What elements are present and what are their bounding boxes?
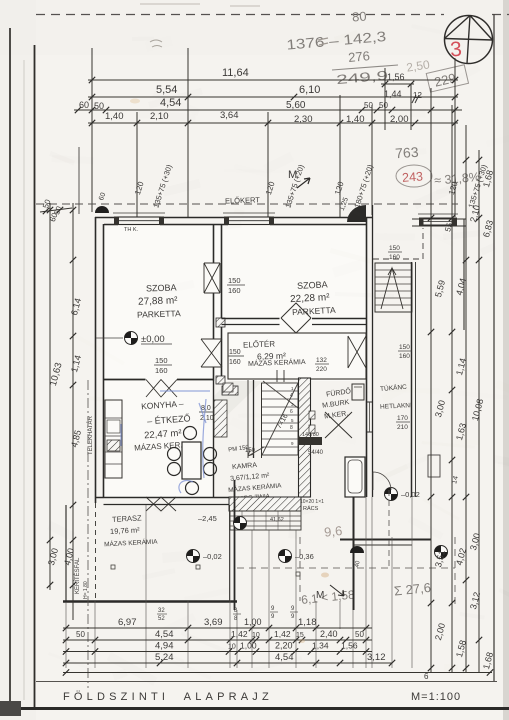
kitchen right wall: [213, 381, 215, 497]
kitchen east wall hatch: [214, 400, 227, 437]
svg-text:M: M: [288, 169, 297, 181]
svg-text:150: 150: [155, 356, 168, 365]
svg-text:50: 50: [355, 630, 364, 639]
wall right of chimney hatblocks: [309, 411, 315, 419]
svg-text:3: 3: [449, 38, 462, 62]
interior stair steps: [262, 381, 299, 458]
svg-text:160: 160: [155, 366, 168, 375]
spine wall hatch blocks: [216, 318, 225, 327]
right chain line x452: [451, 105, 453, 672]
svg-text:60: 60: [79, 100, 89, 110]
svg-text:22,28 m²: 22,28 m²: [290, 292, 331, 305]
svg-text:TERASZ: TERASZ: [112, 513, 142, 524]
extension line x137: [136, 112, 138, 217]
door X hall (lower): [201, 339, 222, 367]
neighbour right wall: [463, 219, 465, 330]
svg-text:11,64: 11,64: [222, 67, 249, 79]
right frame line: [493, 14, 495, 682]
svg-text:243: 243: [402, 169, 424, 184]
svg-text:5,60: 5,60: [286, 100, 306, 111]
svg-text:160: 160: [228, 286, 241, 295]
right chain line x431: [430, 88, 432, 672]
svg-text:6: 6: [424, 672, 429, 681]
dim row3: [63, 651, 372, 653]
entry door swing filled: [347, 205, 366, 222]
level mark 0,00: [125, 332, 138, 345]
svg-text:–2,45: –2,45: [198, 514, 217, 523]
left chain line x73: [72, 203, 74, 620]
bathtub niche: [345, 457, 365, 497]
tiny stacked 9/9: [270, 606, 278, 620]
svg-text:54/40: 54/40: [308, 450, 324, 456]
fraction 150/160 hall: [228, 349, 244, 366]
hall door X right: [348, 336, 366, 368]
svg-text:160: 160: [229, 359, 241, 366]
faint diagonal smudge: [140, 360, 272, 482]
stair arrow top right: [381, 268, 403, 309]
svg-text:10×20 1×1: 10×20 1×1: [300, 499, 324, 505]
dim row2: [63, 639, 372, 641]
svg-text:150: 150: [228, 276, 241, 285]
svg-text:10: 10: [228, 644, 236, 651]
kamra hatch band: [229, 497, 301, 511]
extension line x340: [339, 95, 341, 217]
extension line x92: [91, 48, 93, 212]
door X rooms (upper): [204, 263, 220, 293]
svg-text:6,97: 6,97: [118, 617, 137, 628]
bottom right dashed yard: [237, 567, 455, 569]
left chain line x50: [49, 203, 51, 590]
top exterior wall inner line: [104, 224, 366, 226]
svg-text:1,00: 1,00: [244, 617, 262, 627]
left exterior wall: [95, 217, 97, 503]
svg-text:170: 170: [397, 415, 408, 422]
extension line x411: [410, 84, 412, 130]
hall lower double lines: [277, 370, 284, 382]
svg-text:50: 50: [76, 630, 85, 639]
fraction 132/220 hall: [315, 357, 329, 373]
dim line 11,64: [88, 79, 458, 81]
dark hearth block: [298, 437, 322, 445]
svg-text:2,30: 2,30: [294, 114, 313, 125]
extension line x268: [267, 112, 269, 217]
window W3: [418, 214, 458, 226]
tiny stacked 32/52: [157, 608, 167, 622]
svg-text:ELŐTÉR: ELŐTÉR: [243, 339, 276, 349]
garden left wall stub: [78, 147, 80, 214]
corner half disc: [350, 546, 364, 553]
svg-text:1,34: 1,34: [312, 641, 329, 651]
svg-text:1,40: 1,40: [346, 114, 365, 125]
dim line 1,56: [381, 83, 414, 85]
extension line x385: [384, 68, 386, 130]
fraction 150/160 porch: [398, 344, 412, 360]
terrace door X: [146, 497, 176, 511]
small dim 150 with arrow stairs foot: [248, 447, 264, 456]
terrace outline: [65, 505, 67, 602]
wall pier hatch: [222, 386, 238, 395]
svg-text:–0,02: –0,02: [203, 552, 222, 561]
svg-text:15: 15: [296, 632, 304, 639]
svg-text:150: 150: [389, 245, 400, 252]
dim row4: [63, 662, 392, 664]
svg-text:FÖLDSZINTI ALAPRAJZ: FÖLDSZINTI ALAPRAJZ: [63, 691, 273, 703]
fraction 170/210 porch: [396, 415, 410, 431]
svg-text:80: 80: [352, 9, 367, 25]
svg-text:4: 4: [290, 393, 293, 399]
chairs: [184, 427, 197, 440]
svg-text:–0,02: –0,02: [401, 490, 420, 499]
wall below left room (kitchen top): [104, 379, 215, 381]
svg-text:52: 52: [158, 616, 165, 622]
bottom-left corner blob: [0, 701, 21, 716]
level mark terrace -0,36: [279, 550, 292, 563]
svg-text:6: 6: [290, 409, 293, 415]
dim row1: [63, 627, 372, 629]
stair steps top right: [375, 270, 412, 305]
svg-text:3,12: 3,12: [367, 652, 386, 663]
svg-text:160: 160: [399, 353, 410, 360]
svg-text:SZOBA: SZOBA: [297, 279, 328, 291]
svg-text:–0,36: –0,36: [295, 552, 314, 561]
svg-text:19,76 m²: 19,76 m²: [110, 525, 141, 536]
porch door arc bottom: [373, 472, 391, 490]
extension line x188: [187, 48, 189, 217]
svg-text:220: 220: [316, 366, 327, 373]
middle spine wall: [213, 224, 215, 381]
extension line x372: [371, 105, 373, 215]
bottom right heavy corner: [353, 483, 355, 610]
pencil smudges top: [150, 40, 162, 47]
washbasin corridor: [428, 455, 440, 477]
blue pen marks: [121, 391, 210, 493]
dim line 5,54 / 6,10: [88, 96, 458, 98]
dim line 60/50/4,54/5,60: [74, 109, 462, 111]
tiny stacked 8/8: [233, 608, 241, 622]
svg-text:1,44: 1,44: [384, 89, 402, 99]
svg-text:3,64: 3,64: [220, 110, 239, 121]
svg-text:1,40: 1,40: [105, 111, 124, 122]
house bottom wall over terrace: [96, 497, 230, 499]
svg-text:2,40: 2,40: [320, 629, 338, 639]
svg-text:50: 50: [94, 101, 104, 111]
bathroom X: [325, 412, 352, 438]
level mark terrace -0,02: [187, 550, 200, 563]
svg-text:PARKETTA: PARKETTA: [137, 308, 181, 320]
svg-text:150: 150: [229, 349, 241, 356]
svg-text:160: 160: [389, 254, 400, 261]
fraction 150/160 landing: [388, 245, 402, 261]
svg-text:±0,00: ±0,00: [141, 334, 165, 345]
pencil boxed 229: [426, 65, 468, 92]
level mark porch -0,02: [385, 488, 398, 501]
level mark yard right: [435, 546, 448, 559]
window W2: [223, 213, 275, 225]
front garden dashed line: [36, 203, 458, 205]
svg-text:M: M: [316, 590, 324, 601]
svg-text:27,88 m²: 27,88 m²: [138, 295, 178, 307]
svg-text:2,20: 2,20: [275, 641, 293, 651]
room interior lightening: [104, 226, 366, 381]
right chain line x466: [465, 125, 467, 672]
dim line 1,40 2,10 3,64 2,30 1,40 2,00: [88, 122, 458, 124]
emblem circle top right: [445, 16, 493, 64]
left margin line 1: [9, 28, 11, 714]
kitchen counter: [105, 400, 122, 478]
niche west of stairs: [247, 380, 249, 458]
right chain line x479: [478, 150, 480, 672]
chimney hatched band: [299, 378, 311, 497]
bottom full line: [63, 672, 492, 674]
svg-text:132: 132: [316, 357, 327, 364]
svg-text:32: 32: [158, 608, 165, 614]
svg-text:150: 150: [399, 344, 410, 351]
fraction 150/160 door1: [227, 276, 245, 295]
left margin line 2: [34, 45, 36, 710]
svg-text:41,62: 41,62: [270, 517, 284, 523]
faint fold line: [23, 60, 25, 700]
svg-text:1,42: 1,42: [231, 629, 248, 639]
kitchen door W marks: [146, 380, 177, 398]
top exterior wall outer line: [95, 217, 372, 219]
svg-text:1,56: 1,56: [341, 641, 358, 651]
window W1: [113, 213, 165, 225]
svg-text:1,56: 1,56: [387, 72, 405, 82]
right exterior wall of main block: [366, 217, 368, 497]
interior stair left wall: [253, 380, 255, 458]
property dashdot line: [87, 380, 89, 688]
dining table: [182, 442, 201, 479]
fraction 8,0/21,0: [199, 405, 215, 422]
svg-text:50: 50: [364, 101, 373, 110]
tan specks: [321, 573, 329, 578]
bottom title block top rule: [36, 681, 497, 683]
svg-text:3,69: 3,69: [204, 617, 223, 628]
gate half-disc marker: [95, 206, 109, 213]
extension drops: [66, 497, 412, 668]
svg-text:ELŐKERT: ELŐKERT: [225, 195, 261, 205]
svg-text:8: 8: [290, 425, 293, 431]
door M right room: [281, 318, 311, 333]
top dashed border: [36, 14, 444, 16]
svg-text:1,00: 1,00: [240, 641, 257, 651]
svg-text:276: 276: [348, 48, 371, 65]
bottom frame heavy line: [4, 707, 509, 710]
stair block top right outline: [375, 263, 412, 312]
right room bottom wall: [222, 318, 367, 320]
porch right wall: [411, 262, 413, 497]
svg-text:TH K.: TH K.: [124, 227, 139, 233]
svg-text:210: 210: [397, 424, 408, 431]
svg-text:M=1:100: M=1:100: [411, 691, 461, 703]
svg-text:KERÍTÉSFAL: KERÍTÉSFAL: [74, 557, 81, 594]
fraction 150/160 door2: [154, 356, 172, 375]
hall ELOTER outline: [228, 333, 366, 379]
bathroom fixture top: [352, 384, 364, 400]
extension line x455: [454, 58, 456, 217]
tiny squares terrace: [111, 565, 115, 569]
exterior steps below kamra: [230, 511, 301, 530]
svg-text:50: 50: [379, 101, 388, 110]
pencil sum bar: [332, 65, 398, 70]
neighbour top wall: [412, 219, 466, 226]
svg-text:6,10: 6,10: [299, 84, 320, 96]
right wall window band: [366, 402, 373, 432]
pencil ellipse 243: [396, 165, 432, 187]
svg-text:9,6: 9,6: [323, 523, 343, 540]
dashed canopy line: [373, 258, 423, 260]
